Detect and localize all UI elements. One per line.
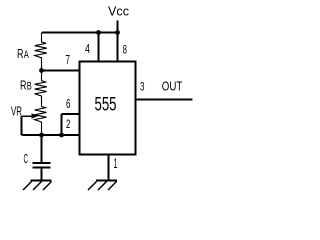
VR wiper arrow shaft [22, 115, 33, 117]
capacitor C top plate [33, 162, 51, 164]
ground right hatch 2 [98, 182, 107, 191]
variable resistor VR [35, 107, 47, 136]
ground left bar [31, 180, 52, 182]
svg-text:2: 2 [66, 117, 71, 131]
wire VR wiper down leg [21, 116, 23, 135]
node junction VR/C [39, 133, 44, 138]
svg-text:A: A [24, 49, 29, 61]
svg-text:C: C [24, 151, 29, 166]
node junction pin4/top rail [96, 30, 101, 35]
svg-text:VR: VR [11, 105, 22, 119]
op-amp U1 555 IC box [80, 62, 136, 155]
capacitor C top lead [41, 135, 43, 163]
wire pin 4 lead [98, 33, 100, 61]
svg-text:3: 3 [140, 80, 145, 94]
wire pin 7 [42, 70, 79, 72]
VR wiper arrowhead [32, 113, 39, 119]
resistor RA [35, 33, 47, 71]
svg-text:R: R [20, 79, 27, 93]
svg-text:R: R [17, 47, 24, 61]
capacitor C bottom lead [41, 168, 43, 181]
svg-text:1: 1 [114, 156, 118, 171]
ground right hatch 1 [108, 182, 117, 191]
node junction pin2 link [59, 133, 64, 138]
node junction Vcc/pin8 [115, 30, 120, 35]
ground right hatch 3 [88, 182, 97, 191]
wire pin6-pin2 link vertical [61, 114, 63, 135]
wire pin 6 [62, 113, 79, 115]
resistor RB [35, 71, 47, 107]
ground right bar [96, 180, 117, 182]
svg-text:8: 8 [123, 43, 128, 57]
svg-text:7: 7 [66, 53, 71, 67]
wire pin 8 lead [117, 33, 119, 61]
svg-text:B: B [27, 81, 32, 93]
ground left hatch 1 [43, 182, 52, 191]
svg-text:OUT: OUT [162, 79, 183, 94]
wire pin 1 lead [108, 155, 110, 182]
svg-text:4: 4 [85, 42, 90, 56]
wire Vcc stub [117, 21, 119, 33]
ground left hatch 3 [23, 182, 32, 191]
svg-text:6: 6 [66, 97, 71, 111]
wire pin 3 OUT [137, 99, 193, 101]
ground left hatch 2 [33, 182, 42, 191]
capacitor C bottom plate [33, 167, 51, 169]
svg-text:Vcc: Vcc [108, 4, 129, 19]
wire top rail Vcc [42, 32, 118, 34]
wire bottom net (pins 2/6 to C) [22, 134, 79, 136]
svg-text:555: 555 [95, 95, 117, 116]
node junction RA/RB/pin7 [39, 68, 44, 73]
